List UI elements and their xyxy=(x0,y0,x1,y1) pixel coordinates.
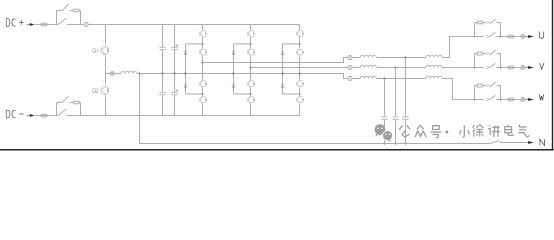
wire precharge branch riser DC- xyxy=(56,103,58,116)
diode D6 clamp lower xyxy=(281,85,284,88)
wire neutral midline xyxy=(140,73,344,75)
wire W bypass down xyxy=(500,86,502,100)
transistor Q2 chopper IGBT xyxy=(101,84,109,97)
contactor K7 V main contact xyxy=(475,63,501,68)
contactor K1 main contact xyxy=(58,18,84,24)
inductor L0 balancer choke xyxy=(121,71,137,73)
contactor K2 precharge contact xyxy=(57,4,73,10)
wire phase2 output xyxy=(251,67,348,69)
fuse FW phase W xyxy=(506,98,516,101)
wire chopper leg middle xyxy=(105,57,107,84)
wire V5 to V6 xyxy=(250,38,252,49)
node U output arrow xyxy=(525,35,534,38)
node W contactor junction xyxy=(474,99,476,101)
watermark wechat logo small bubble xyxy=(383,131,393,143)
contactor K3 main contact xyxy=(58,109,66,115)
wire leg midsection V10-V11 xyxy=(299,56,301,79)
wire W fuse to sensor xyxy=(516,99,521,101)
diode D3 clamp upper xyxy=(232,52,235,55)
switch N disconnect blade xyxy=(490,141,499,144)
wire bridge leg V5-V8 top xyxy=(250,25,252,30)
wire V9 to V10 xyxy=(299,38,301,49)
contactor K9 W main contact xyxy=(475,95,501,100)
wire clamp column D5-D6 xyxy=(282,44,284,94)
wire C7 to neutral rail xyxy=(384,120,386,143)
wire C3 to bottom bus xyxy=(162,95,164,116)
watermark text hao xyxy=(430,126,441,138)
sensor chopper current xyxy=(110,72,114,76)
watermark text jiang xyxy=(488,125,500,137)
sensor V output CT xyxy=(521,66,525,70)
label U terminal xyxy=(539,32,543,39)
transistor V9 top IGBT xyxy=(296,30,304,38)
inductor L4 phase1 second xyxy=(426,55,442,57)
fuse FV phase V xyxy=(506,66,516,69)
wire C5 to neutral rail xyxy=(405,120,407,143)
node C2 midline junction xyxy=(173,72,175,74)
transistor V7 third IGBT xyxy=(247,80,255,88)
watermark text dot separator xyxy=(445,131,448,134)
node phase2 filter cap tap xyxy=(394,66,396,68)
wire phase1 after L1 xyxy=(376,57,426,59)
transistor V2 second IGBT xyxy=(199,48,207,56)
inductor L2 phase2 xyxy=(360,65,376,67)
capacitor C1 upper wire xyxy=(162,25,164,48)
node V output arrow xyxy=(525,66,534,69)
resistor R5 W bypass xyxy=(477,84,483,87)
transistor V4 bottom IGBT xyxy=(199,96,207,104)
wire V3 to V4 xyxy=(202,88,204,96)
wire leg midsection V6-V7 xyxy=(250,56,252,79)
wire phase1 to U riser xyxy=(442,37,475,58)
sensor U output CT xyxy=(521,35,525,39)
fuse F2 xyxy=(39,114,49,117)
transistor V5 top IGBT xyxy=(247,30,255,38)
sensor phase2 CT xyxy=(348,65,352,69)
node clamp bottom junction V11 xyxy=(299,93,301,95)
node clamp column neutral D5 xyxy=(281,72,283,74)
wire sensor to inductor xyxy=(114,73,121,75)
wire phase3 after L3 xyxy=(376,78,426,80)
watermark text xiao xyxy=(459,125,469,137)
inductor L5 phase2 second xyxy=(426,65,442,67)
node clamp top junction V5 xyxy=(250,43,252,45)
wire fuse to contactor K3 xyxy=(49,115,58,117)
contactor K4 precharge contact DC- xyxy=(57,96,73,102)
diode D2 clamp lower xyxy=(184,85,187,88)
capacitor C3 xyxy=(159,92,165,94)
wire V bypass riser xyxy=(474,54,476,68)
wire leg to bottom bus V4 xyxy=(202,104,204,116)
diode D1 clamp upper xyxy=(184,52,187,55)
inductor L6 phase3 second xyxy=(426,76,442,78)
wire C1 to midline xyxy=(162,50,164,74)
transistor V1 top IGBT xyxy=(199,30,207,38)
label N terminal xyxy=(540,139,545,145)
resistor R3 U bypass xyxy=(477,21,483,24)
wire DC+ to fuse xyxy=(35,24,39,26)
wire V to fuse xyxy=(501,67,506,69)
wire clamp column bottom stub D4 xyxy=(234,93,251,95)
node C6 rail junction xyxy=(394,142,396,144)
sensor DC+ current transducer xyxy=(84,22,88,26)
capacitor C5 filter wire xyxy=(405,58,407,116)
wire V bypass down xyxy=(500,54,502,68)
label Q2 xyxy=(93,89,99,93)
label DC- terminal xyxy=(6,110,23,118)
capacitor C2 xyxy=(171,47,177,49)
wire bridge leg V1-V4 top xyxy=(202,25,204,30)
transistor Q1 chopper IGBT xyxy=(101,44,109,57)
wire clamp column top stub D5 xyxy=(283,43,300,45)
wire W to fuse xyxy=(501,99,506,101)
node U rejoin junction xyxy=(500,36,502,38)
wire W bypass riser xyxy=(474,86,476,100)
wire precharge down to bus xyxy=(80,11,82,25)
transistor V3 third IGBT xyxy=(199,80,207,88)
wire C2 to midline xyxy=(174,50,176,74)
capacitor C1 xyxy=(159,47,165,49)
wire phase2 after L2 xyxy=(376,67,426,69)
wire clamp column top stub D3 xyxy=(234,43,251,45)
wire chopper leg upper xyxy=(105,25,107,45)
wire precharge branch riser xyxy=(56,11,58,25)
transistor V12 bottom IGBT xyxy=(296,96,304,104)
fuse FU phase U xyxy=(506,35,516,38)
capacitor C7 filter wire xyxy=(384,79,386,116)
wire neutral drop to rail xyxy=(139,74,141,144)
wire DC- bottom bus xyxy=(67,115,300,117)
wire leg to bottom bus V12 xyxy=(299,104,301,116)
watermark wechat logo big bubble xyxy=(375,124,386,136)
resistor R1 precharge xyxy=(73,9,80,12)
wire phase3 to L3 xyxy=(352,78,360,80)
wire N to arrow xyxy=(500,142,529,144)
contactor K8 V bypass contact xyxy=(475,50,501,55)
wire DC- to fuse xyxy=(35,115,39,117)
diode D5 clamp upper xyxy=(281,52,284,55)
node neutral junction xyxy=(138,72,140,74)
node clamp column neutral D3 xyxy=(232,72,234,74)
node clamp bottom junction V7 xyxy=(250,93,252,95)
wire phase3 to W drop xyxy=(442,79,475,100)
wire clamp column bottom stub D2 xyxy=(186,93,203,95)
capacitor C2 polarity plus xyxy=(176,44,179,47)
wire midline to C3 xyxy=(162,74,164,93)
watermark text gong xyxy=(399,125,410,137)
wire C4 to bottom bus xyxy=(174,95,176,116)
node W rejoin junction xyxy=(500,99,502,101)
watermark text dian xyxy=(505,125,513,136)
wire clamp column D3-D4 xyxy=(233,44,235,94)
wire neutral rail xyxy=(140,143,491,145)
node DC- input arrow xyxy=(27,114,35,117)
resistor R2 precharge DC- xyxy=(73,101,80,104)
watermark text xu xyxy=(473,125,484,137)
wire V1 to V2 xyxy=(202,38,204,49)
fuse F1 xyxy=(39,23,49,26)
wire U bypass riser xyxy=(474,23,476,37)
wire fuse to contactor K1 xyxy=(49,24,58,26)
wire midline to C4 xyxy=(174,74,176,93)
wire clamp column bottom stub D6 xyxy=(283,93,300,95)
contactor K10 W bypass contact xyxy=(475,82,501,87)
node C7 rail junction xyxy=(383,142,385,144)
transistor V11 third IGBT xyxy=(296,80,304,88)
wire phase2 to V contactor xyxy=(442,67,475,69)
sensor phase3 CT xyxy=(348,76,352,80)
wire precharge down to DC- bus xyxy=(80,103,82,116)
node clamp bottom junction V3 xyxy=(202,93,204,95)
node phase3 filter cap tap xyxy=(383,77,385,79)
inductor L1 phase1 xyxy=(360,55,376,57)
wire V fuse to sensor xyxy=(516,67,521,69)
wire V7 to V8 xyxy=(250,88,252,96)
inductor L3 phase3 xyxy=(360,76,376,78)
label V terminal xyxy=(540,63,544,69)
node phase1 filter cap tap xyxy=(404,56,406,58)
node U contactor junction xyxy=(474,36,476,38)
resistor R4 V bypass xyxy=(477,52,483,55)
wire inductor to neutral node xyxy=(137,73,140,75)
wire U to fuse xyxy=(501,36,506,38)
wire phase3 output jog xyxy=(344,74,348,79)
node C1 midline junction xyxy=(161,72,163,74)
wire chopper leg lower xyxy=(105,97,107,116)
wire V11 to V12 xyxy=(299,88,301,96)
capacitor C6 filter wire xyxy=(395,68,397,116)
capacitor C6 xyxy=(392,117,398,119)
node V rejoin junction xyxy=(500,67,502,69)
wire leg to bottom bus V8 xyxy=(250,104,252,116)
contactor K5 U main contact xyxy=(475,32,501,37)
transistor V8 bottom IGBT xyxy=(247,96,255,104)
sensor phase1 CT xyxy=(348,55,352,59)
label W terminal xyxy=(539,94,543,100)
capacitor C5 xyxy=(402,117,408,119)
watermark text zhong xyxy=(415,125,426,137)
node N output arrow xyxy=(528,141,534,144)
node phase tap V10 xyxy=(298,72,300,74)
node clamp column neutral D1 xyxy=(184,72,186,74)
diode D4 clamp lower xyxy=(232,85,235,88)
node phase tap V6 xyxy=(249,66,251,68)
node V contactor junction xyxy=(474,67,476,69)
label DC+ terminal xyxy=(6,19,23,27)
wire DC+ top bus xyxy=(88,24,299,26)
wire clamp column D1-D2 xyxy=(185,44,187,94)
capacitor C4 polarity plus xyxy=(176,89,179,92)
capacitor C4 xyxy=(171,92,177,94)
border bottom edge xyxy=(0,149,554,151)
node W output arrow xyxy=(525,98,534,101)
capacitor C2 upper wire xyxy=(174,25,176,48)
sensor W output CT xyxy=(521,98,525,102)
node phase tap V2 xyxy=(201,61,203,63)
transistor V10 second IGBT xyxy=(296,48,304,56)
node clamp top junction V9 xyxy=(299,43,301,45)
wire bridge leg V9-V12 top xyxy=(299,25,301,30)
capacitor C7 xyxy=(381,117,387,119)
wire phase1 to L1 xyxy=(352,57,360,59)
wire leg midsection V2-V3 xyxy=(202,56,204,79)
watermark text qi xyxy=(518,125,529,137)
contactor K6 U bypass contact xyxy=(475,19,501,24)
border right edge xyxy=(552,0,554,150)
wire chopper midpoint to sensor xyxy=(106,73,111,75)
node C5 rail junction xyxy=(404,142,406,144)
wire phase1 output xyxy=(203,58,348,63)
wire C6 to neutral rail xyxy=(395,120,397,143)
node DC+ input arrow xyxy=(27,23,35,26)
transistor V6 second IGBT xyxy=(247,48,255,56)
wire U bypass down xyxy=(500,23,502,37)
node clamp top junction V1 xyxy=(202,43,204,45)
wire U fuse to sensor xyxy=(516,36,521,38)
label Q1 xyxy=(93,49,98,53)
wire phase2 to L2 xyxy=(352,67,360,69)
wire clamp column top stub D1 xyxy=(186,43,203,45)
